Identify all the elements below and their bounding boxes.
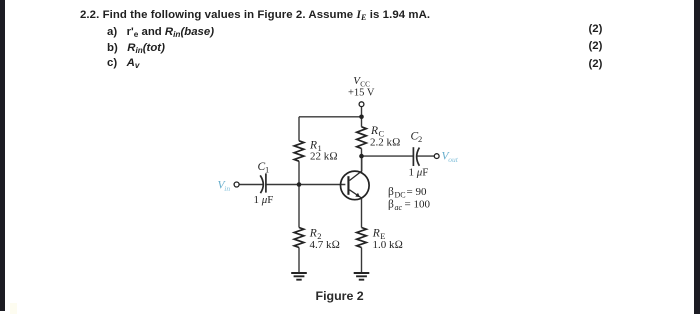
svg-text:2.2 kΩ: 2.2 kΩ — [370, 137, 400, 149]
svg-text:β: β — [388, 199, 394, 211]
svg-text:22 kΩ: 22 kΩ — [310, 151, 338, 163]
svg-text:β: β — [388, 186, 394, 198]
svg-text:in: in — [224, 184, 230, 193]
svg-text:4.7 kΩ: 4.7 kΩ — [310, 239, 340, 251]
svg-text:= 100: = 100 — [405, 199, 431, 211]
svg-text:ac: ac — [395, 203, 403, 212]
svg-text:R: R — [372, 228, 380, 240]
svg-text:out: out — [448, 155, 459, 164]
svg-text:1 μF: 1 μF — [254, 194, 274, 206]
svg-text:1 μF: 1 μF — [409, 167, 429, 179]
svg-text:R: R — [370, 125, 378, 137]
svg-text:2: 2 — [418, 134, 422, 144]
svg-text:1: 1 — [265, 165, 269, 175]
svg-text:+15 V: +15 V — [348, 88, 375, 99]
svg-text:R: R — [309, 228, 317, 240]
svg-text:= 90: = 90 — [407, 186, 427, 198]
svg-text:1.0 kΩ: 1.0 kΩ — [373, 239, 403, 251]
